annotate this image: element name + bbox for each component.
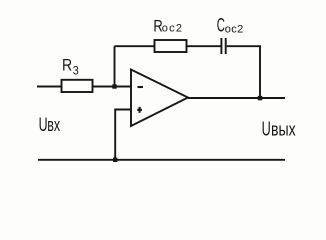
capacitor Coc2	[221, 38, 225, 54]
pin plus non-inverting input	[137, 107, 142, 113]
svg-text:U: U	[39, 114, 48, 135]
svg-text:U: U	[262, 117, 271, 140]
wire Roc2 to Coc2	[187, 45, 221, 47]
label R3	[62, 57, 79, 78]
resistor R3	[62, 80, 93, 92]
svg-text:oc2: oc2	[225, 24, 244, 36]
label Coc2	[217, 16, 244, 37]
label Uvyx	[262, 117, 297, 140]
wire output	[188, 97, 285, 99]
resistor Roc2	[155, 40, 187, 52]
svg-text:oc2: oc2	[162, 22, 183, 34]
wire plus input from bottom rail	[115, 110, 131, 160]
wire input left segment	[37, 86, 131, 88]
wire feedback tap vertical	[114, 46, 116, 86]
svg-text:вых: вых	[271, 120, 296, 140]
label Uvx	[39, 114, 61, 135]
node C junction on bottom rail	[113, 158, 117, 162]
wire Coc2 to right corner and down to output	[227, 46, 260, 98]
node A junction at inverting input	[112, 84, 116, 88]
pin minus inverting input	[138, 86, 144, 88]
svg-text:R: R	[62, 57, 72, 75]
wire bottom rail	[38, 159, 285, 161]
label Roc2	[153, 18, 183, 36]
node B output junction	[258, 96, 262, 100]
wire feedback top horizontal	[115, 45, 155, 47]
svg-text:вх: вх	[47, 116, 60, 136]
op-amp U1 triangle	[131, 70, 188, 127]
svg-text:3: 3	[73, 65, 79, 78]
